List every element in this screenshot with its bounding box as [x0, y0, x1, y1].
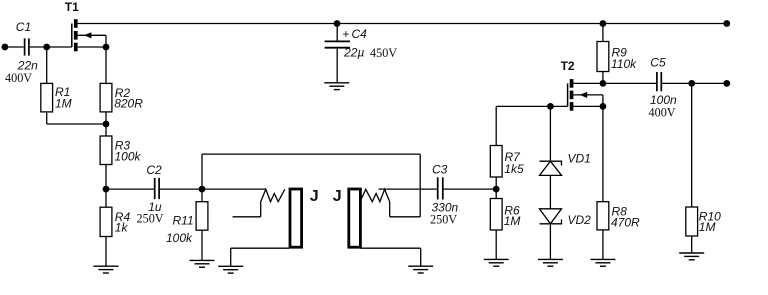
- wire riser to overhead: [201, 154, 203, 189]
- svg-text:C4: C4: [352, 27, 368, 41]
- wire R3 bottom lead: [105, 165, 107, 190]
- wire C3 to R7 node: [444, 188, 497, 190]
- node R1/R2/R3 junction: [103, 121, 110, 128]
- resistor R1: [41, 83, 53, 112]
- node C1/R1/gate junction: [43, 44, 50, 51]
- svg-text:820R: 820R: [114, 97, 143, 111]
- svg-text:110k: 110k: [611, 57, 637, 71]
- resistor R10: [686, 207, 698, 236]
- node R9 on rail: [600, 20, 607, 27]
- svg-text:400V: 400V: [649, 105, 676, 119]
- wire left filament riser: [260, 202, 262, 217]
- node T2 drain/R9/C5 junction: [600, 80, 607, 87]
- capacitor C5: [657, 72, 661, 91]
- capacitor C3: [438, 177, 443, 199]
- wire R7 top lead up: [495, 106, 497, 145]
- svg-text:VD2: VD2: [568, 213, 592, 227]
- capacitor C1: [25, 38, 29, 55]
- node rail right terminal: [723, 20, 730, 27]
- ground under R4: [93, 266, 118, 273]
- wire R11 top lead: [201, 189, 203, 202]
- wire C4 top lead: [336, 24, 338, 42]
- svg-text:+: +: [342, 27, 349, 41]
- svg-text:22µ: 22µ: [343, 46, 364, 60]
- svg-text:C5: C5: [650, 56, 666, 70]
- wire C1 to T1 gate: [30, 46, 72, 48]
- node C2/R11 junction: [199, 186, 206, 193]
- resistor R11: [196, 202, 208, 231]
- wire right lamp bottom: [361, 247, 421, 249]
- resistor R7: [490, 146, 502, 178]
- svg-text:VD1: VD1: [568, 151, 591, 165]
- wire R6 to ground: [495, 230, 497, 259]
- lamp electrode plate left: [290, 189, 302, 247]
- wire R1 bottom lead: [46, 112, 48, 124]
- wire node R3 to C2: [106, 188, 154, 190]
- wire zener chain vertical: [549, 106, 551, 259]
- svg-text:1k: 1k: [115, 220, 129, 234]
- svg-text:J: J: [333, 188, 342, 205]
- ground left lamp: [218, 266, 243, 273]
- wire R1 top lead: [46, 47, 48, 83]
- wire C4 to ground: [336, 48, 338, 83]
- node T1 source junction: [103, 44, 110, 51]
- ground right lamp: [408, 266, 433, 273]
- wire R10 to ground: [691, 236, 693, 253]
- ground under C4: [324, 83, 349, 90]
- wire R9 bottom lead: [602, 72, 604, 84]
- svg-text:1k5: 1k5: [504, 162, 524, 176]
- wire C1 left lead: [5, 46, 24, 48]
- node C1 input terminal: [2, 44, 9, 51]
- wire left lamp ground drop: [230, 248, 232, 266]
- wire R2 bottom lead: [105, 112, 107, 124]
- wire C2 to R11 node: [160, 188, 202, 190]
- resistor R9: [597, 42, 609, 72]
- wire overhead line: [202, 153, 420, 155]
- svg-text:J: J: [310, 188, 319, 205]
- filament left zigzag: [261, 189, 285, 201]
- wire R2 top lead: [105, 47, 107, 83]
- node T2 gate/VD1 junction: [547, 103, 554, 110]
- capacitor C4 electrolytic: [325, 41, 350, 47]
- wire R1-R2 join: [47, 123, 106, 125]
- wire right filament to C3: [379, 188, 437, 190]
- wire right lamp ground drop: [420, 248, 422, 266]
- ground under R11: [190, 260, 215, 267]
- capacitor C2: [155, 178, 159, 199]
- node T2 source/R8 junction: [600, 103, 607, 110]
- wire R3 top lead: [105, 124, 107, 136]
- resistor R3: [100, 136, 112, 165]
- wire R8 to ground: [602, 230, 604, 260]
- transistor T2: [568, 79, 603, 111]
- wire R8 top lead: [602, 106, 604, 201]
- wire R10 long top lead: [691, 83, 693, 207]
- node output right terminal: [723, 80, 730, 87]
- resistor R2: [100, 83, 112, 112]
- svg-text:250V: 250V: [430, 213, 457, 227]
- wire right filament riser: [389, 202, 391, 217]
- svg-text:1M: 1M: [504, 214, 521, 228]
- svg-text:C3: C3: [432, 163, 448, 177]
- wire overhead down right: [419, 154, 421, 217]
- wire R4 to ground: [105, 237, 107, 267]
- svg-text:1M: 1M: [55, 97, 72, 111]
- wire left filament stub: [233, 216, 261, 218]
- ground under VD2: [538, 259, 563, 266]
- svg-text:R11: R11: [173, 214, 194, 228]
- svg-text:C1: C1: [16, 20, 31, 34]
- node C3/R7/R6 junction: [493, 186, 500, 193]
- wire R7 bottom lead: [495, 177, 497, 189]
- svg-text:250V: 250V: [137, 211, 164, 225]
- wire R4 top lead: [105, 189, 107, 207]
- zener diode VD2: [540, 209, 562, 224]
- node C4 on rail: [334, 20, 341, 27]
- wire C5 to right terminal: [662, 82, 727, 84]
- svg-text:C2: C2: [146, 163, 162, 177]
- lamp electrode plate right: [349, 189, 361, 247]
- svg-text:100k: 100k: [115, 149, 142, 163]
- svg-text:100k: 100k: [166, 231, 193, 245]
- node dots: [2, 20, 731, 192]
- wire top rail: [78, 23, 727, 25]
- wire R11 to ground: [201, 230, 203, 260]
- wire R9 top lead: [602, 24, 604, 42]
- node R10 branch: [688, 80, 695, 87]
- resistor R4: [100, 207, 112, 236]
- svg-text:400V: 400V: [5, 71, 32, 85]
- svg-text:470R: 470R: [611, 216, 640, 230]
- wire right filament stub: [390, 216, 421, 218]
- resistor R6: [490, 199, 502, 231]
- svg-text:1M: 1M: [699, 220, 716, 234]
- ground under R6: [484, 259, 509, 266]
- transistor T1: [72, 19, 106, 51]
- svg-text:T2: T2: [561, 59, 575, 73]
- node R3/R4/C2 junction: [103, 186, 110, 193]
- filament right zigzag: [361, 189, 390, 201]
- wire left lamp bottom: [231, 247, 289, 249]
- wire R6 top lead: [495, 189, 497, 198]
- wire R11 node to lamp filament: [202, 188, 266, 190]
- ground under R10: [679, 253, 704, 260]
- svg-text:450V: 450V: [370, 46, 397, 60]
- zener diode VD1: [540, 161, 562, 175]
- wire drain T2 to C5: [573, 82, 656, 84]
- ground under R8: [590, 259, 615, 266]
- svg-text:T1: T1: [65, 0, 79, 14]
- wire gate wire T2: [496, 105, 567, 107]
- resistor R8: [597, 202, 609, 230]
